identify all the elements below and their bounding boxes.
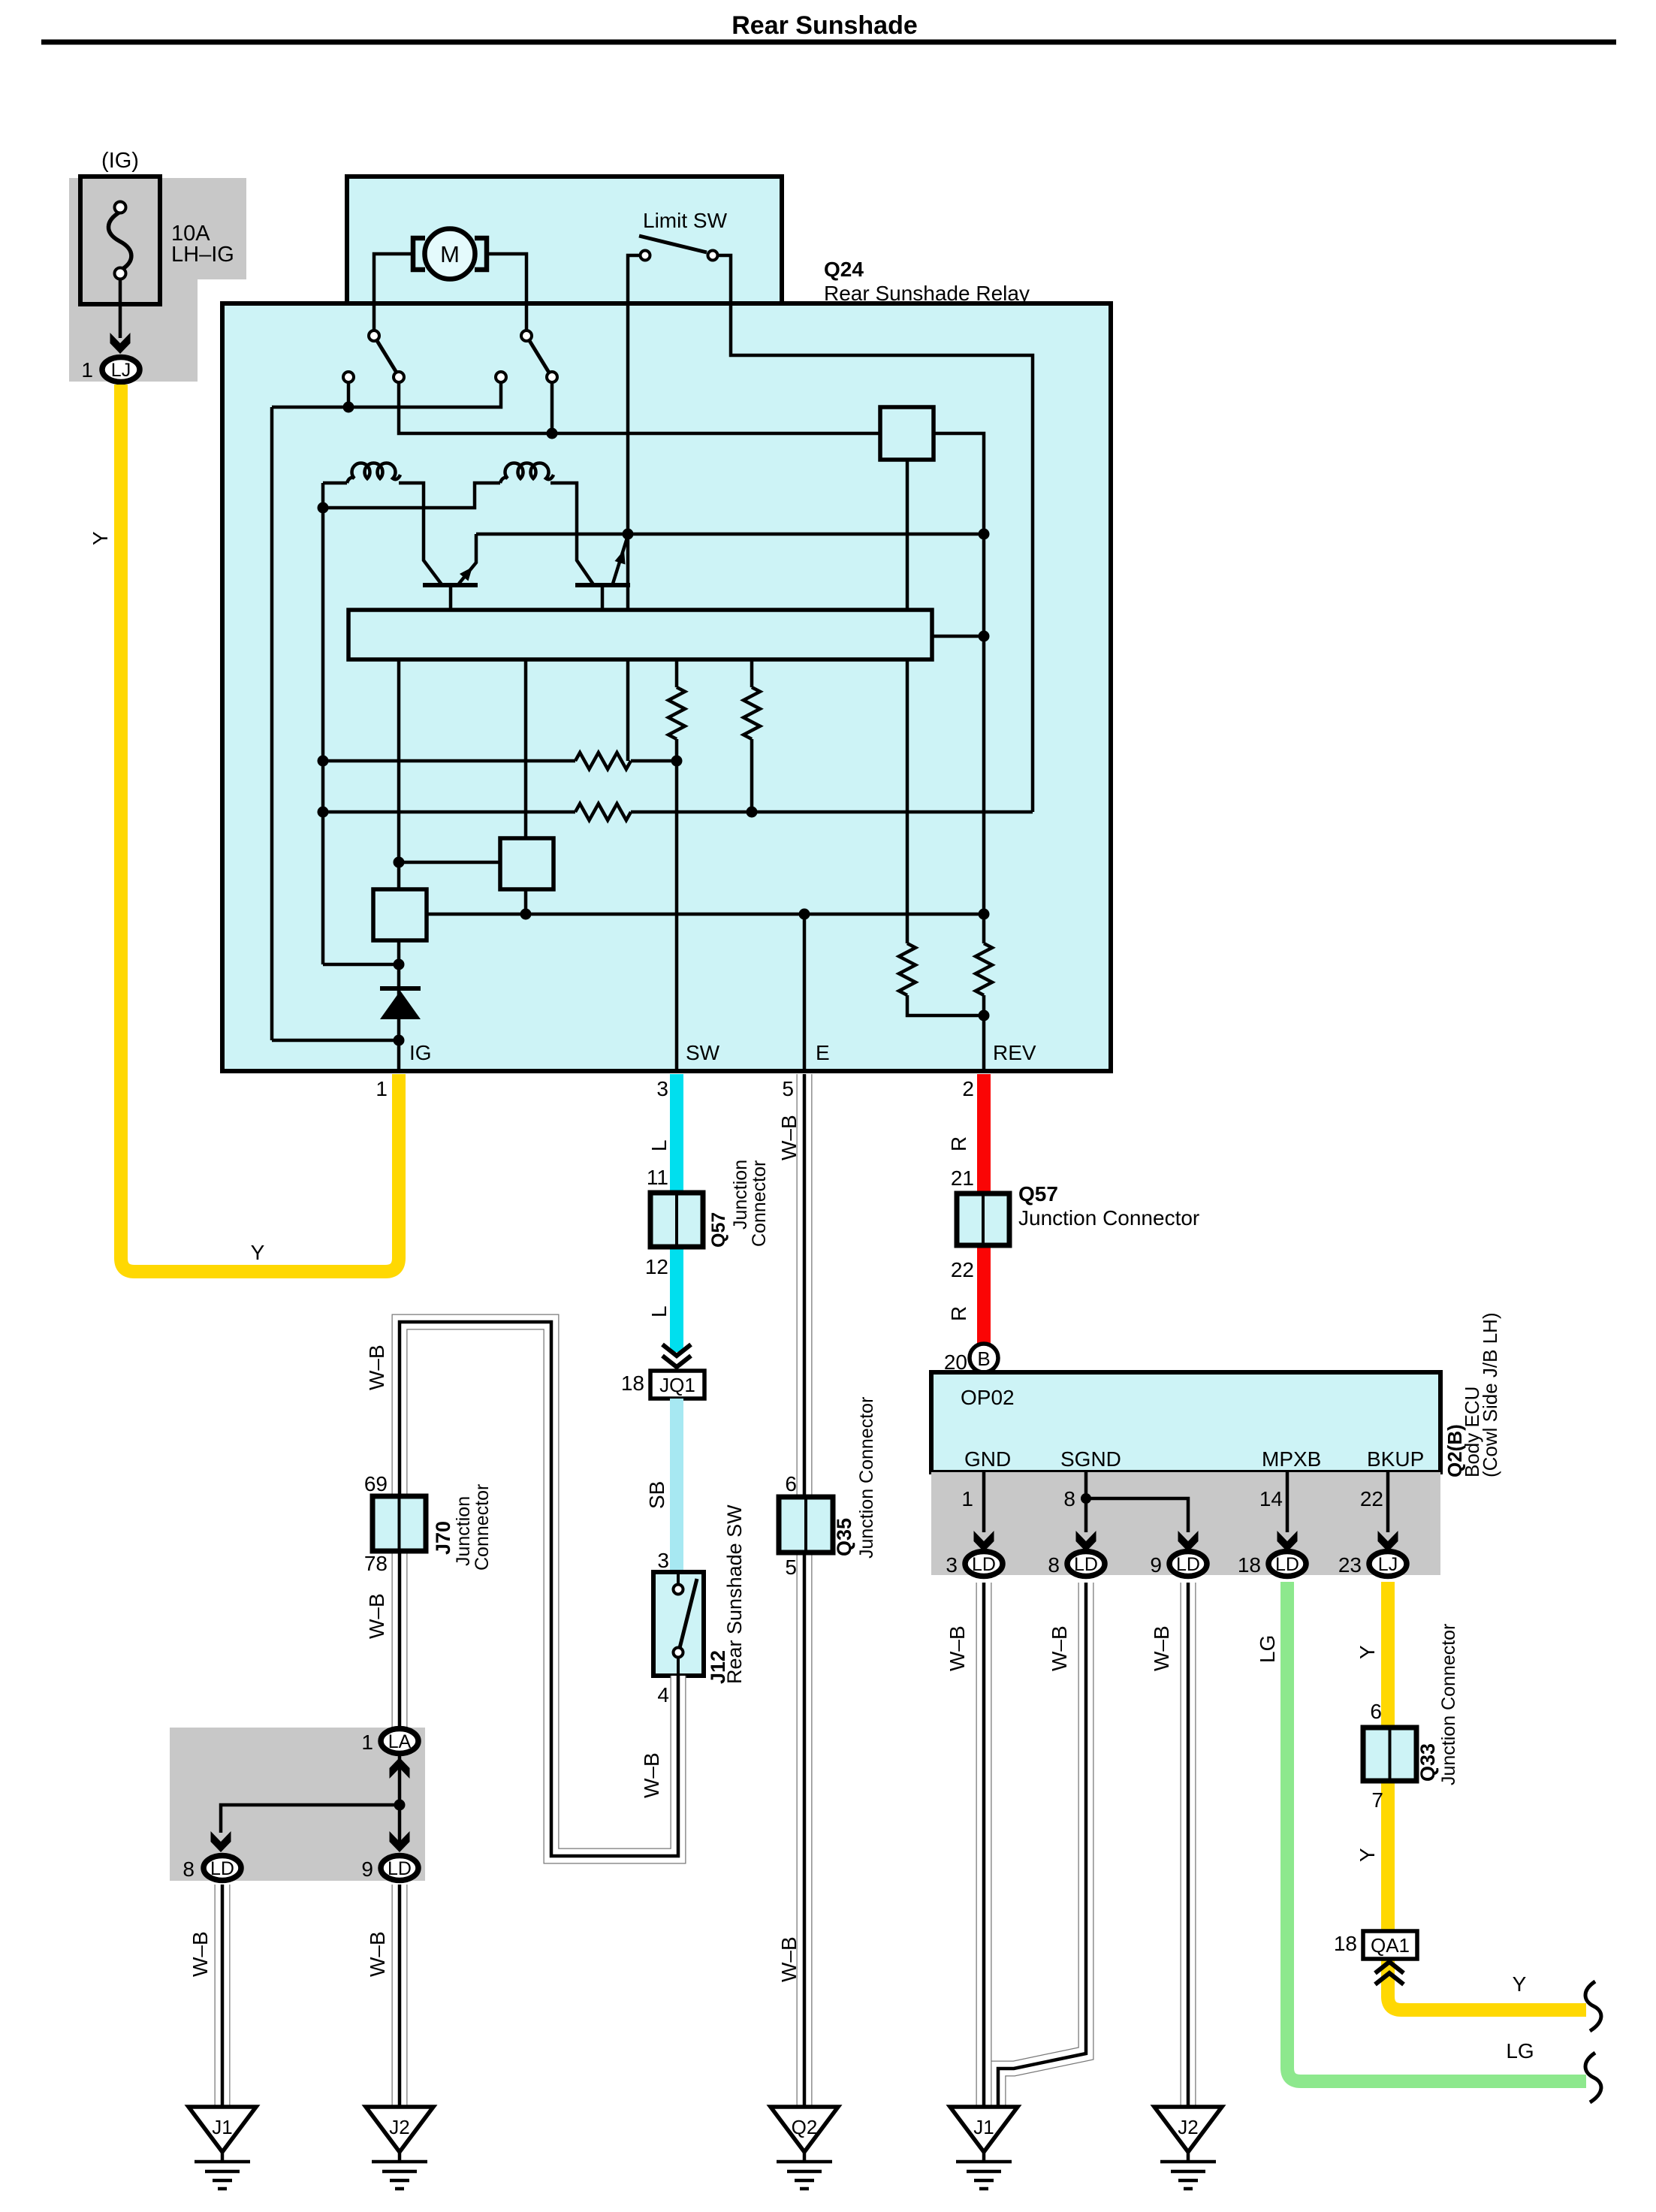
chevron arrow into JQ1 [662, 1344, 691, 1356]
wire BKUP to 23 LJ [1386, 1472, 1390, 1532]
svg-text:JQ1: JQ1 [659, 1374, 695, 1396]
wire W-B 9LD to ground J2 [392, 1885, 408, 2107]
svg-text:LJ: LJ [111, 360, 131, 381]
arrow into connector LJ [110, 333, 131, 354]
svg-text:LA: LA [388, 1731, 412, 1752]
svg-text:7: 7 [1371, 1788, 1383, 1812]
motor M [425, 229, 475, 279]
wire coil1 to transistor Q1 collector [399, 483, 442, 584]
svg-text:W–B: W–B [365, 1344, 388, 1390]
svg-text:Limit SW: Limit SW [643, 209, 728, 232]
connector 1 LJ [102, 358, 140, 382]
wire L (cyan) relay pin 3 to JQ1 [670, 1074, 683, 1352]
svg-text:(Cowl Side J/B LH): (Cowl Side J/B LH) [1479, 1312, 1501, 1477]
wire bus to square S1 / pin path [397, 659, 401, 1071]
wire E pin vertical [803, 914, 807, 1071]
svg-text:1: 1 [961, 1487, 973, 1510]
svg-text:W–B: W–B [1048, 1625, 1071, 1671]
svg-text:22: 22 [1360, 1487, 1383, 1510]
svg-text:Junction Connector: Junction Connector [1018, 1206, 1199, 1230]
wire R (red) relay pin 2 to body ECU [977, 1074, 991, 1344]
resistor R2 (bus to feedback line) [750, 659, 754, 687]
IC bus bar [348, 610, 932, 659]
svg-text:W–B: W–B [640, 1752, 663, 1798]
ground Q2 [771, 2107, 838, 2152]
resistor R6 (REV divider right) [976, 943, 992, 995]
svg-text:OP02: OP02 [961, 1386, 1015, 1409]
svg-text:Rear Sunshade: Rear Sunshade [731, 11, 918, 40]
svg-text:L: L [647, 1305, 671, 1317]
svg-text:Y: Y [1513, 1972, 1527, 1996]
svg-text:Y: Y [1356, 1848, 1379, 1862]
chevron arrow out of QA1 [1375, 1973, 1404, 1984]
wire switch outputs to driver square [399, 382, 880, 433]
svg-text:MPXB: MPXB [1262, 1447, 1321, 1471]
svg-text:LD: LD [388, 1858, 412, 1879]
limit SW lever [639, 236, 707, 252]
transistor Q1 [423, 583, 478, 587]
svg-text:Connector: Connector [472, 1484, 493, 1571]
wire coil left leg [323, 481, 347, 485]
wire coil junction row [321, 483, 325, 964]
svg-text:J2: J2 [1178, 2116, 1198, 2138]
svg-text:W–B: W–B [946, 1625, 969, 1671]
svg-text:W–B: W–B [777, 1115, 801, 1160]
svg-text:Y: Y [89, 531, 112, 545]
svg-text:8: 8 [1063, 1487, 1075, 1510]
svg-text:SB: SB [645, 1481, 668, 1509]
limit SW contacts [641, 251, 650, 261]
svg-text:R: R [947, 1136, 970, 1151]
body ECU Q2(B) box OP02 [931, 1372, 1440, 1472]
svg-text:IG: IG [409, 1041, 432, 1064]
svg-text:Rear Sunshade SW: Rear Sunshade SW [723, 1504, 746, 1684]
wire fuse to connector [119, 278, 122, 338]
svg-text:9: 9 [361, 1857, 373, 1881]
wire W-B relay pin 5 to ground Q2 [797, 1074, 813, 2107]
svg-text:18: 18 [1238, 1553, 1261, 1577]
svg-text:21: 21 [951, 1166, 974, 1190]
wire limit SW right contact to REV branch [718, 255, 1033, 812]
svg-text:18: 18 [1334, 1932, 1357, 1955]
svg-text:5: 5 [785, 1556, 797, 1579]
svg-text:Q2: Q2 [792, 2116, 818, 2138]
svg-text:W–B: W–B [365, 1593, 388, 1639]
svg-text:J1: J1 [212, 2116, 232, 2138]
svg-text:23: 23 [1338, 1553, 1362, 1577]
svg-text:3: 3 [656, 1077, 668, 1100]
wire LA to LD splits [398, 1755, 402, 1850]
inductor L2 [500, 463, 554, 483]
wire coil2 to transistor Q2 collector [550, 483, 593, 584]
svg-text:LG: LG [1506, 2039, 1534, 2063]
ground J1 (right) [950, 2107, 1018, 2152]
resistor R5 (REV divider left) [899, 943, 915, 995]
svg-text:78: 78 [364, 1552, 388, 1575]
connector 9 LD [1169, 1552, 1207, 1577]
off-page break (LG) [1585, 2053, 1601, 2102]
svg-text:M: M [440, 241, 460, 267]
relay Q24 upper compartment (motor / limit SW) [347, 177, 782, 303]
svg-text:J1: J1 [973, 2116, 994, 2138]
svg-text:SGND: SGND [1060, 1447, 1121, 1471]
svg-text:LD: LD [1074, 1554, 1098, 1575]
wire W-B 8LD joins J1 wire [998, 1583, 1086, 2108]
ground J1 (left) [189, 2107, 256, 2152]
wire SGND to 8 LD / 9 LD [1084, 1472, 1088, 1532]
svg-text:3: 3 [657, 1549, 669, 1572]
svg-text:12: 12 [645, 1255, 668, 1278]
wire feedback row 2 with resistor R4 [323, 810, 575, 814]
junction connector J70 [373, 1496, 426, 1551]
svg-text:Q24: Q24 [824, 258, 864, 281]
connector 8 LD [211, 1831, 231, 1852]
svg-text:LJ: LJ [1378, 1554, 1398, 1575]
svg-text:J70: J70 [432, 1521, 454, 1555]
driver square U2 (middle) [399, 861, 500, 865]
svg-text:LD: LD [210, 1858, 234, 1879]
svg-text:6: 6 [1370, 1700, 1382, 1723]
svg-text:B: B [977, 1347, 990, 1370]
wire left inner vertical to diode node [270, 407, 274, 1040]
svg-text:Junction Connector: Junction Connector [1438, 1624, 1459, 1785]
wire node A horizontal (switch commons) [347, 382, 351, 407]
wire emitter bus (limit SW junction) [476, 533, 984, 536]
wire limit SW vertical to resistor row [626, 534, 630, 761]
svg-text:Q57: Q57 [708, 1212, 729, 1248]
junction block shading (IG fuse area) [69, 178, 246, 382]
svg-text:9: 9 [1150, 1553, 1162, 1577]
wire driver square to REV divider [906, 457, 909, 943]
svg-text:R: R [947, 1306, 970, 1321]
wire bus to square S2 [524, 659, 528, 914]
svg-text:W–B: W–B [1150, 1625, 1173, 1671]
svg-text:LH–IG: LH–IG [171, 243, 234, 267]
wire SB relay sunshade switch [670, 1399, 683, 1572]
svg-text:Y: Y [1356, 1645, 1379, 1659]
driver square U1 (lower left) [373, 889, 427, 940]
relay switch 1 [376, 339, 397, 373]
fuse F 10A LH-IG box [80, 177, 160, 304]
relay switch 2 [529, 339, 549, 373]
connector 3 LD [965, 1552, 1003, 1577]
svg-text:8: 8 [182, 1857, 195, 1881]
svg-text:(IG): (IG) [101, 149, 139, 173]
svg-text:REV: REV [993, 1041, 1036, 1064]
switch J12 Rear Sunshade SW [653, 1572, 704, 1676]
svg-text:QA1: QA1 [1371, 1934, 1410, 1957]
wire LG (green) MPXB to off-page [1287, 1582, 1586, 2081]
svg-text:Q57: Q57 [1018, 1182, 1058, 1206]
connector 1 LA [390, 1758, 410, 1779]
svg-text:E: E [816, 1041, 830, 1064]
relay Q24 main box [222, 303, 1111, 1071]
svg-text:18: 18 [621, 1372, 644, 1395]
junction connector Q35 [779, 1497, 833, 1553]
svg-text:LD: LD [972, 1554, 996, 1575]
wire GND to 3 LD [982, 1472, 986, 1532]
wire W-B J12 to connector LA (loop) [400, 1322, 678, 1856]
inductor L1 [347, 463, 400, 483]
svg-text:4: 4 [657, 1683, 669, 1707]
svg-text:11: 11 [647, 1166, 668, 1189]
wire MPXB to 18 LD [1286, 1472, 1290, 1532]
wire W-B 9LD to ground J2 [1181, 1583, 1196, 2107]
off-page break (Y) [1585, 1981, 1601, 2031]
svg-text:1: 1 [361, 1731, 373, 1754]
wire bus right output [932, 635, 984, 638]
svg-text:Y: Y [251, 1241, 265, 1264]
junction connector Q57 (REV side) [957, 1194, 1009, 1245]
svg-text:GND: GND [964, 1447, 1011, 1471]
junction connector Q57 (SW side) [650, 1193, 703, 1247]
svg-text:LG: LG [1256, 1635, 1279, 1663]
svg-text:Q33: Q33 [1416, 1743, 1439, 1782]
svg-text:2: 2 [962, 1077, 974, 1100]
svg-text:22: 22 [951, 1258, 974, 1281]
svg-text:BKUP: BKUP [1367, 1447, 1424, 1471]
svg-text:14: 14 [1259, 1487, 1283, 1510]
svg-text:W–B: W–B [189, 1931, 212, 1977]
wire motor right to switch 2 [487, 254, 526, 331]
svg-text:Connector: Connector [749, 1160, 770, 1247]
svg-text:L: L [647, 1139, 671, 1151]
svg-text:Junction Connector: Junction Connector [856, 1397, 877, 1559]
wire Y (yellow) fuse to relay pin 1 [121, 385, 399, 1272]
svg-text:1: 1 [81, 358, 93, 382]
diode D1 [380, 986, 421, 991]
wire A to diode row [272, 1039, 399, 1043]
svg-text:5: 5 [782, 1077, 794, 1100]
svg-text:W–B: W–B [366, 1931, 389, 1977]
junction connector Q33 [1363, 1728, 1416, 1781]
svg-text:LD: LD [1176, 1554, 1200, 1575]
wire Y (yellow) BKUP to off-page [1388, 1582, 1586, 2010]
svg-text:6: 6 [785, 1472, 797, 1495]
svg-text:69: 69 [364, 1472, 388, 1495]
splice JQ1 [650, 1371, 704, 1399]
svg-text:Q35: Q35 [833, 1518, 855, 1556]
connector 9 LD [390, 1831, 410, 1852]
svg-text:8: 8 [1048, 1553, 1060, 1577]
connector 23 LJ [1369, 1552, 1407, 1577]
svg-text:W–B: W–B [777, 1936, 801, 1982]
svg-text:1: 1 [376, 1077, 388, 1100]
wire limit SW left contact down [628, 255, 640, 534]
svg-text:3: 3 [946, 1553, 958, 1577]
svg-text:J2: J2 [389, 2116, 409, 2138]
wire motor left to switch 1 [374, 254, 415, 331]
svg-text:SW: SW [686, 1041, 720, 1064]
svg-text:LD: LD [1275, 1554, 1299, 1575]
junction block shading (body ECU outputs) [931, 1472, 1440, 1575]
ground J2 (left) [366, 2107, 433, 2152]
wire U1 output row to E pin and REV chain [427, 913, 984, 916]
fuse element [108, 212, 131, 270]
svg-text:Junction: Junction [730, 1160, 751, 1230]
svg-text:Rear Sunshade Relay: Rear Sunshade Relay [824, 282, 1030, 305]
connector 8 LD [1067, 1552, 1105, 1577]
wire W-B 8LD to ground J1 [215, 1885, 231, 2107]
wire feedback row 1 with resistor R3 [323, 759, 575, 763]
junction block shading (LA/LD) [170, 1728, 425, 1881]
resistor R1 (bus to SW line) [675, 659, 679, 687]
transistor Q2 [575, 583, 630, 587]
wire square U3 to REV chain [934, 433, 984, 913]
ground J2 (right) [1154, 2107, 1222, 2152]
splice QA1 [1363, 1931, 1417, 1959]
driver square U3 (top right) [880, 407, 934, 460]
svg-text:Junction: Junction [453, 1496, 474, 1566]
connector 18 LD [1268, 1552, 1306, 1577]
header rule [41, 40, 1616, 45]
